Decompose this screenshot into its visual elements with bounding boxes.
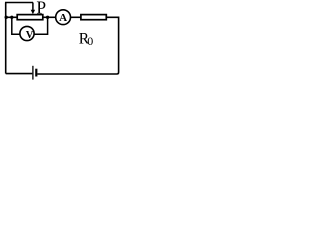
battery: short thick plate (-) (35, 69, 37, 77)
rheostat P body (17, 15, 43, 20)
wire: voltmeter left lead (down, right) (12, 17, 20, 34)
wire: main top wire left segment (6, 16, 18, 18)
wire: voltmeter right lead (right, up) (34, 17, 47, 34)
wire: bottom left segment to battery (6, 73, 33, 75)
svg-text:0: 0 (87, 34, 93, 48)
wire: resistor to right vertical, down and bottom right corner (37, 17, 118, 74)
resistor R0 body (81, 15, 106, 20)
wire: ammeter to resistor R0 (71, 16, 81, 18)
node: voltmeter right tap (46, 16, 49, 19)
node: voltmeter left tap (10, 16, 13, 19)
wire: slider arrow shaft (32, 3, 34, 11)
ammeter U1 circle (56, 10, 71, 25)
svg-text:P: P (36, 0, 46, 18)
battery: long thin plate (+) (32, 66, 34, 80)
wire: left vertical branch (5, 3, 7, 74)
slider arrowhead (31, 10, 35, 15)
wire: rheostat to ammeter (43, 16, 55, 18)
voltmeter U2 circle (20, 26, 34, 40)
svg-text:A: A (59, 12, 67, 24)
background (0, 0, 132, 90)
node: T junction at left wire (5, 16, 8, 19)
svg-text:V: V (26, 30, 34, 41)
wire: top horizontal to slider (5, 2, 33, 4)
